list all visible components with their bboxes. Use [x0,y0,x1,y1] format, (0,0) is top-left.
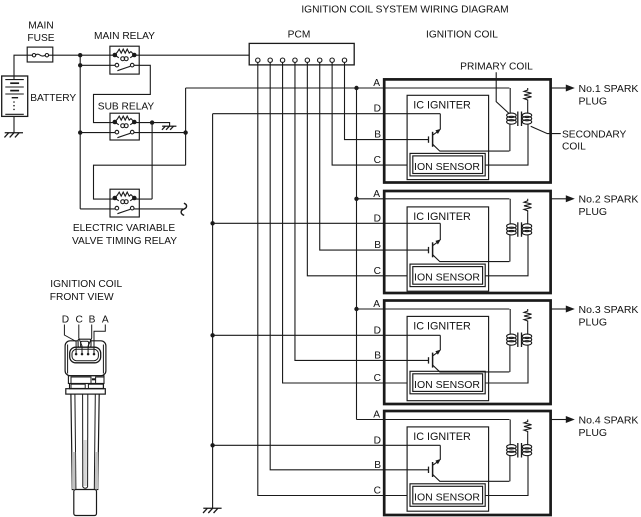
svg-text:MAIN RELAY: MAIN RELAY [94,31,155,42]
svg-text:C: C [374,486,381,497]
svg-text:No.3 SPARK: No.3 SPARK [579,304,639,316]
svg-text:IGNITION COIL SYSTEM WIRING DI: IGNITION COIL SYSTEM WIRING DIAGRAM [301,5,508,16]
svg-text:D: D [374,104,381,115]
svg-text:ION SENSOR: ION SENSOR [414,272,480,284]
svg-text:SECONDARY: SECONDARY [562,129,627,140]
svg-text:IC IGNITER: IC IGNITER [413,320,471,332]
svg-text:IC IGNITER: IC IGNITER [413,99,471,111]
svg-text:C: C [374,266,381,277]
svg-text:MAIN: MAIN [28,21,53,32]
svg-text:No.4 SPARK: No.4 SPARK [579,414,639,426]
svg-text:B: B [374,240,381,251]
svg-text:D: D [374,435,381,446]
svg-text:A: A [373,410,380,421]
svg-text:B: B [374,350,381,361]
svg-text:ION SENSOR: ION SENSOR [414,161,480,173]
svg-text:B: B [374,460,381,471]
svg-text:ION SENSOR: ION SENSOR [414,491,480,503]
svg-text:PLUG: PLUG [579,206,608,218]
svg-text:B: B [374,130,381,141]
svg-text:ION SENSOR: ION SENSOR [414,379,480,391]
svg-text:PCM: PCM [288,30,311,41]
svg-text:IGNITION COIL: IGNITION COIL [50,279,122,290]
svg-text:IC IGNITER: IC IGNITER [413,431,471,443]
svg-text:A: A [102,315,109,326]
svg-text:ELECTRIC VARIABLE: ELECTRIC VARIABLE [73,223,175,234]
svg-text:SUB RELAY: SUB RELAY [98,102,155,113]
svg-text:PRIMARY COIL: PRIMARY COIL [460,62,533,73]
svg-text:IGNITION COIL: IGNITION COIL [426,30,498,41]
svg-text:FUSE: FUSE [27,33,54,44]
svg-text:D: D [374,213,381,224]
svg-text:VALVE TIMING RELAY: VALVE TIMING RELAY [72,236,177,247]
svg-text:C: C [374,155,381,166]
svg-text:C: C [76,315,83,326]
svg-text:B: B [89,315,96,326]
svg-text:D: D [62,315,69,326]
svg-text:PLUG: PLUG [579,316,608,328]
svg-text:A: A [373,299,380,310]
svg-text:C: C [374,373,381,384]
svg-text:PLUG: PLUG [579,95,608,107]
svg-text:IC IGNITER: IC IGNITER [413,211,471,223]
svg-text:A: A [373,78,380,89]
svg-text:FRONT VIEW: FRONT VIEW [50,292,114,303]
svg-text:BATTERY: BATTERY [30,93,76,104]
svg-text:PLUG: PLUG [579,427,608,439]
svg-text:No.2 SPARK: No.2 SPARK [579,194,639,206]
svg-text:COIL: COIL [562,141,586,152]
svg-text:D: D [374,325,381,336]
svg-text:No.1 SPARK: No.1 SPARK [579,83,639,95]
svg-text:A: A [373,189,380,200]
